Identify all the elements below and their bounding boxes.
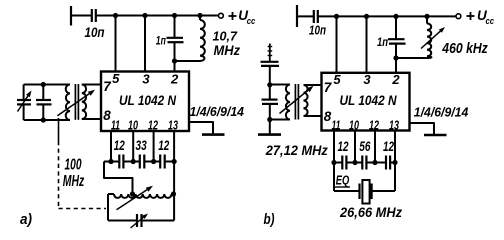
- svg-text:2: 2: [170, 71, 179, 86]
- wire pin5 a: [115, 16, 117, 72]
- capacitor C4a lower lead: [42, 105, 44, 120]
- crystal XT1 right plate: [371, 184, 373, 200]
- antenna lead ticks b: [268, 46, 273, 48]
- wire jog row to coil tap a: [104, 162, 133, 195]
- variable capacitor C3a upper lead: [23, 85, 25, 100]
- transformer T1b core: [294, 84, 296, 120]
- node dot rail b pin5: [334, 14, 339, 19]
- capacitor C4a upper lead: [42, 85, 44, 100]
- wire pin2 b upper: [395, 16, 397, 39]
- svg-text:1/4/6/9/14: 1/4/6/9/14: [190, 105, 245, 119]
- wire crystal loop right b: [372, 190, 395, 192]
- wire secondary bottom to pin8 b: [304, 115, 322, 117]
- wire ground stub b: [410, 123, 435, 134]
- node dot coil tap a: [130, 191, 135, 196]
- wire input to C1: [71, 15, 91, 17]
- svg-text:33: 33: [136, 137, 147, 153]
- svg-text:5: 5: [333, 72, 341, 87]
- variable inductor L1b 460kHz: [426, 16, 428, 23]
- wire pin3 a: [144, 16, 146, 72]
- inductor L1a 10.7MHz: [199, 16, 201, 21]
- gang line a solid part: [58, 118, 60, 141]
- wire top rail b: [318, 15, 456, 17]
- capacitor C6b 56 plates: [361, 156, 363, 170]
- wire pin11 stub a: [110, 131, 112, 162]
- variable capacitor C3a lower lead: [23, 105, 25, 120]
- wire cap row b seg3: [366, 162, 386, 164]
- svg-text:1/4/6/9/14: 1/4/6/9/14: [414, 106, 469, 120]
- svg-text:11: 11: [332, 117, 341, 132]
- wire cap row b seg2: [346, 162, 362, 164]
- svg-text:13: 13: [168, 118, 178, 133]
- circuit a) input terminal bar: [70, 6, 72, 26]
- wire tank a2 top-left: [108, 193, 114, 195]
- svg-text:MHz: MHz: [63, 173, 85, 190]
- wire pin2 b lower: [395, 44, 397, 73]
- capacitor C6a 33 plates: [139, 155, 141, 169]
- svg-text:460 kHz: 460 kHz: [441, 41, 488, 57]
- tank a2 left edge: [107, 194, 109, 221]
- transformer T1a secondary winding: [82, 85, 86, 120]
- svg-text:13: 13: [389, 117, 399, 132]
- node dot rail b pin3: [364, 14, 369, 19]
- capacitor C4a plates: [36, 99, 51, 101]
- node dot b tank top: [267, 82, 272, 87]
- capacitor C4b plates: [262, 98, 278, 100]
- wire coil bottom to pin2 b: [396, 57, 420, 59]
- svg-text:10п: 10п: [85, 25, 106, 40]
- wire pin2 a upper: [174, 16, 176, 38]
- svg-text:2: 2: [391, 72, 400, 87]
- wire pin12 stub b: [374, 131, 376, 163]
- wire input to C1b: [297, 15, 313, 17]
- wire to primary bottom b: [270, 119, 290, 121]
- gang line a dashed horizontal: [59, 208, 107, 210]
- svg-text:12: 12: [158, 137, 169, 153]
- capacitor C1a 10p plates: [91, 9, 93, 22]
- wire pin11 stub b: [333, 131, 335, 192]
- node dot row a p12: [151, 159, 156, 164]
- svg-text:26,66 MHz: 26,66 MHz: [339, 204, 402, 220]
- svg-text:12: 12: [148, 118, 158, 133]
- node dot rail a coil: [197, 13, 202, 18]
- wire pin13 stub b: [394, 131, 396, 192]
- svg-text:11: 11: [111, 118, 120, 133]
- svg-text:27,12 MHz: 27,12 MHz: [265, 142, 328, 158]
- variable capacitor C3a plates: [17, 99, 31, 101]
- op-amp IC U1b UL1042N box: [322, 73, 410, 131]
- svg-text:12: 12: [383, 138, 394, 154]
- svg-text:3: 3: [363, 72, 371, 87]
- ground b left: [258, 133, 281, 136]
- antenna lead b: [269, 44, 271, 62]
- svg-text:3: 3: [142, 71, 150, 86]
- node dot rail a pin5: [113, 13, 118, 18]
- svg-text:10: 10: [128, 118, 138, 133]
- capacitor C7a 12 plates: [159, 155, 161, 169]
- transformer T1b primary winding: [286, 85, 290, 120]
- wire pin10 stub b: [354, 131, 356, 163]
- svg-text:b): b): [264, 212, 275, 228]
- wire secondary bottom to pin8 a: [82, 118, 101, 120]
- node dot rail b coil: [424, 14, 429, 19]
- node dot rail a pin3: [142, 13, 147, 18]
- wire cap row b seg4: [390, 162, 397, 164]
- capacitor C3b plates: [261, 61, 279, 63]
- node dot tank a bottom: [41, 117, 46, 122]
- ground a: [202, 133, 225, 136]
- circuit b) input terminal bar: [296, 5, 298, 27]
- svg-text:56: 56: [359, 138, 370, 154]
- node dot row a p13: [172, 159, 177, 164]
- svg-text:12: 12: [338, 138, 349, 154]
- terminal +Ucc (a) open circle: [219, 13, 224, 18]
- svg-text:12: 12: [114, 137, 125, 153]
- svg-text:1п: 1п: [377, 37, 388, 49]
- wire cap row a seg2: [123, 161, 139, 163]
- wire secondary top to pin7 a: [82, 84, 101, 86]
- node dot b tank bottom: [267, 117, 272, 122]
- wire cap row a seg3: [144, 161, 160, 163]
- svg-text:a): a): [20, 212, 32, 228]
- wire C4b to ground b2: [269, 104, 271, 134]
- crystal XT1 left plate: [358, 184, 360, 200]
- variable inductor L2a arrow: [117, 190, 148, 210]
- node dot a coil-C2 junction: [172, 58, 177, 63]
- variable capacitor C8a arrow: [131, 217, 144, 228]
- capacitor C5a 12 plates: [118, 155, 120, 169]
- svg-text:UL 1042 N: UL 1042 N: [340, 92, 398, 108]
- node dot rail a pin2: [172, 13, 177, 18]
- svg-text:1п: 1п: [156, 36, 166, 48]
- tank a2 bottom wire left: [108, 220, 137, 222]
- wire ground stub a: [189, 122, 213, 134]
- wire cap row b seg1: [332, 162, 343, 164]
- capacitor C5b 12 plates: [341, 156, 343, 170]
- gang line a dashed vertical: [58, 141, 60, 209]
- node dot tank a top: [41, 82, 46, 87]
- transformer T1b tuning arrow: [280, 90, 309, 113]
- wire pin13 stub a right edge: [173, 131, 175, 221]
- node dot coil right a: [171, 191, 176, 196]
- svg-text:10п: 10п: [309, 23, 326, 38]
- wire pin12 stub a: [153, 131, 155, 162]
- variable inductor L2a winding: [114, 194, 172, 198]
- label +Ucc (a): [229, 15, 237, 17]
- crystal XT1 body: [362, 180, 369, 204]
- wire pin10 stub a: [132, 131, 134, 162]
- left tank a top rail: [24, 84, 70, 86]
- svg-text:cc: cc: [247, 16, 256, 27]
- node dot row a p10: [131, 159, 136, 164]
- wire cap row a seg4: [165, 161, 177, 163]
- op-amp IC U1a UL1042N box: [101, 72, 189, 132]
- tank a2 bottom wire right: [142, 220, 174, 222]
- capacitor C2b 1n plates: [388, 38, 405, 40]
- transformer T1a tuning arrow: [57, 94, 89, 116]
- transformer T1b secondary winding: [304, 85, 308, 116]
- node dot b coil-C2 junction: [393, 55, 398, 60]
- left tank a bottom rail: [24, 119, 70, 121]
- wire pin3 b: [366, 16, 368, 72]
- svg-text:EQ: EQ: [336, 174, 350, 188]
- ground b: [424, 134, 447, 137]
- wire pin5 b: [336, 16, 338, 72]
- svg-text:cc: cc: [486, 16, 495, 27]
- svg-text:MHz: MHz: [214, 43, 241, 58]
- svg-text:5: 5: [112, 71, 120, 86]
- node dot row b p10: [352, 160, 357, 165]
- capacitor C1b 10p plates: [313, 10, 315, 23]
- wire crystal loop left b: [334, 190, 360, 192]
- node dot row b p13: [392, 160, 397, 165]
- svg-text:12: 12: [369, 117, 379, 132]
- wire C3b to C4b: [269, 66, 271, 99]
- node dot row a p11: [108, 159, 113, 164]
- wire to primary top b: [270, 84, 290, 86]
- node dot row b p12: [372, 160, 377, 165]
- capacitor C7b 12 plates: [385, 156, 387, 170]
- svg-text:100: 100: [65, 156, 82, 173]
- terminal +Ucc (b) open circle: [456, 14, 461, 19]
- wire top rail a: [96, 15, 219, 17]
- variable capacitor C8a plates: [136, 214, 138, 227]
- variable inductor L1b arrow: [421, 31, 440, 48]
- variable capacitor C3a arrow: [18, 96, 28, 112]
- transformer T1a core: [74, 84, 76, 120]
- svg-text:10,7: 10,7: [213, 29, 238, 44]
- svg-text:UL 1042 N: UL 1042 N: [119, 92, 177, 108]
- label +Ucc (b): [467, 15, 475, 17]
- capacitor C2a 1n plates: [167, 37, 184, 39]
- transformer T1a primary winding: [66, 85, 70, 121]
- node dot rail b pin2: [393, 14, 398, 19]
- node dot row b p11: [331, 160, 336, 165]
- svg-text:10: 10: [349, 117, 359, 132]
- wire secondary top to pin7 b: [304, 84, 322, 86]
- wire pin2 a lower: [174, 42, 176, 71]
- wire cap row a seg1: [104, 161, 119, 163]
